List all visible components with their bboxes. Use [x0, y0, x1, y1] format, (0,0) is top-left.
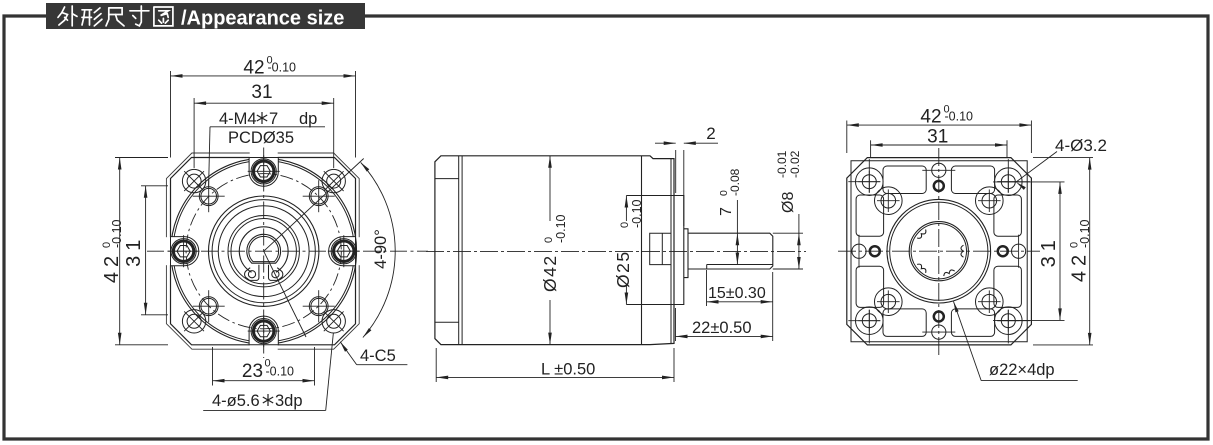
- svg-text:7: 7: [718, 207, 735, 216]
- svg-text:-0.02: -0.02: [788, 150, 802, 178]
- rear inner hole SW: [881, 294, 896, 309]
- dim 42 top rear: dimension line: [847, 124, 1032, 126]
- svg-text:42: 42: [1069, 250, 1091, 282]
- svg-text:31: 31: [1038, 235, 1060, 267]
- dim d8: extension lines: [773, 232, 803, 234]
- dim 22: extension lines: [675, 308, 677, 341]
- svg-text:22±0.50: 22±0.50: [692, 319, 752, 337]
- rear outer hole d3.2 NW: [862, 175, 876, 189]
- rear big circle double: [887, 199, 991, 303]
- svg-text:-0.10: -0.10: [268, 61, 297, 75]
- svg-text:31: 31: [927, 127, 948, 148]
- rear mid-edge hole pair N: [932, 163, 946, 177]
- front pilot boss d25 double circle: [209, 196, 319, 306]
- svg-text:4-ø5.6: 4-ø5.6: [212, 392, 260, 410]
- svg-text:15±0.30: 15±0.30: [708, 285, 766, 302]
- gear tooth squiggle 65 deg: [944, 270, 955, 276]
- dim L: dimension line: [436, 376, 674, 378]
- front screw pockets (white fill covers big circle): [250, 152, 278, 159]
- M4 tapped hole SW: [199, 297, 218, 316]
- dim 31 top rear: extension lines: [870, 140, 872, 157]
- dim 7 shaft: line and arrows: [736, 200, 738, 265]
- svg-text:PCDØ35: PCDØ35: [228, 129, 294, 147]
- side view body outline: [435, 156, 674, 345]
- front outer circle d42 double: [171, 158, 357, 344]
- rear centerlines: [838, 250, 1040, 252]
- rear view square outline: [847, 158, 1032, 345]
- rear corner pocket NW: [856, 168, 884, 196]
- side view small disc on shaft: [684, 229, 688, 278]
- rear outer hole d3.2 SE: [1001, 314, 1015, 328]
- socket screw N: [251, 159, 276, 184]
- socket screw E: [331, 239, 356, 264]
- side view inner hub rectangle: [650, 233, 671, 264]
- rear corner pocket SE: [995, 307, 1023, 335]
- svg-text:-0.10: -0.10: [1078, 219, 1092, 248]
- rear slot bottom-left: [883, 309, 926, 337]
- dim 22: dimension line: [676, 335, 773, 337]
- header Chinese text 外形尺寸图 (drawn strokes): [58, 6, 173, 26]
- svg-text:42: 42: [920, 106, 941, 127]
- dim 31 top front: dimension line: [194, 102, 334, 104]
- svg-text:23: 23: [242, 361, 263, 382]
- rear inner hole SE: [982, 294, 997, 309]
- corner hole d5.6 SW: [182, 310, 205, 333]
- corner hole d5.6 NE: [322, 169, 345, 192]
- dim 2 top: extension lines: [675, 150, 677, 193]
- rear slot top-left: [883, 166, 926, 194]
- rear slot left-top: [856, 195, 884, 236]
- rear corner pocket edge connector lines: [868, 159, 870, 193]
- svg-text:4-Ø3.2: 4-Ø3.2: [1055, 136, 1107, 155]
- socket screw S: [251, 319, 276, 344]
- rear inner hole NW: [881, 193, 896, 208]
- svg-text:-0.01: -0.01: [775, 150, 789, 178]
- rear mid-edge hole pair S: [932, 325, 946, 339]
- side view shaft flat line: [707, 264, 773, 266]
- front circlip around shaft: [239, 227, 288, 273]
- M4 tapped hole NE: [309, 187, 328, 206]
- front centerline horizontal: [147, 250, 428, 252]
- corner hole d5.6 SE: [322, 310, 345, 333]
- rear outer hole d3.2 NE: [1001, 175, 1015, 189]
- front shaft circle d8 with flat (D-shape) double: [247, 234, 281, 263]
- rear corner pocket NE: [995, 168, 1023, 196]
- svg-text:7: 7: [269, 110, 278, 128]
- svg-text:-0.10: -0.10: [630, 199, 644, 228]
- rear slot top-right: [951, 166, 994, 194]
- dim d25 side: extension lines: [626, 195, 681, 197]
- dim 2 top: arrows outside: [655, 142, 676, 144]
- label 4-M4 leader shelf and leader to M4 hole: [210, 126, 325, 128]
- rear gear bore circle double: [909, 222, 968, 281]
- dim 23 bottom: extension lines: [212, 347, 214, 386]
- svg-text:-0.08: -0.08: [728, 168, 742, 196]
- svg-text:4-90°: 4-90°: [372, 229, 390, 269]
- circlip ears: [245, 265, 259, 281]
- dim d8: dimension line: [798, 214, 800, 269]
- side view centerline: [426, 250, 806, 252]
- rear slot bottom-right: [951, 309, 994, 337]
- svg-text:-0.10: -0.10: [110, 219, 124, 248]
- svg-text:/Appearance size: /Appearance size: [181, 8, 344, 30]
- gear tooth squiggle 135 deg: [917, 264, 926, 273]
- side view flange double right edge: [670, 159, 672, 344]
- M4 tapped hole SE: [309, 297, 328, 316]
- rear slot right-bottom: [994, 266, 1022, 307]
- svg-text:-0.10: -0.10: [554, 214, 568, 243]
- front PCD35 dash-dot circle: [186, 174, 341, 329]
- front view square flange outline: [171, 158, 356, 345]
- svg-text:4-C5: 4-C5: [360, 347, 396, 365]
- dim 42 right rear: extension lines: [1033, 157, 1093, 159]
- side view left cap band lines: [458, 156, 460, 345]
- dim L: extension lines: [435, 348, 437, 382]
- svg-text:2: 2: [706, 124, 715, 143]
- svg-text:Ø42: Ø42: [540, 254, 560, 292]
- gear tooth squiggle 225 deg: [917, 230, 926, 239]
- rear inner hole NE: [982, 193, 997, 208]
- corner hole d5.6 NW: [182, 169, 205, 192]
- M4 tapped hole NW: [199, 187, 218, 206]
- dim 31 right rear: dimension line: [1059, 182, 1061, 321]
- angle dim 4-90 arc with arrows: [361, 162, 395, 337]
- front view outer flange silhouette square: [166, 153, 359, 349]
- socket screw W: [171, 239, 196, 264]
- dim 31 top rear: dimension line: [871, 144, 1007, 146]
- front bearing circles: [228, 216, 299, 287]
- dim d25 side: dimension line: [625, 196, 627, 222]
- dim 23 bottom: dimension line: [213, 380, 315, 382]
- svg-text:L ±0.50: L ±0.50: [541, 361, 595, 379]
- front diagonal radial line to NE arc end: [264, 159, 364, 252]
- dim 31 left front: dimension line: [145, 186, 147, 315]
- gear tooth squiggle 0 deg: [961, 245, 964, 257]
- header bar: [46, 3, 365, 29]
- side view gearbox joint line: [641, 156, 643, 345]
- dim 15: extension line: [706, 270, 708, 306]
- svg-text:42: 42: [101, 251, 123, 283]
- dim 31 right rear: extension lines: [993, 181, 1065, 183]
- rear mid-edge hole pair W: [852, 244, 866, 258]
- rear outer hole d3.2 SW: [862, 314, 876, 328]
- dim 15: dimension line: [707, 301, 773, 303]
- svg-text:ø22×4dp: ø22×4dp: [989, 361, 1055, 379]
- rear slot right-top: [994, 195, 1022, 236]
- svg-text:Ø25: Ø25: [613, 250, 633, 288]
- dim 42 top front: dimension line: [171, 75, 356, 77]
- svg-text:4-M4: 4-M4: [219, 110, 257, 128]
- rear inner face rectangle: [851, 161, 1027, 342]
- side view shaft d8 outline: [688, 233, 773, 269]
- svg-text:dp: dp: [299, 110, 317, 128]
- dim 42 left front: dimension line: [119, 158, 121, 345]
- dim 31 left front: extension lines: [141, 185, 168, 187]
- dim 42 left front: extension lines: [115, 157, 168, 159]
- dim 42 top front: extension lines: [170, 71, 172, 158]
- circlip ear holes: [248, 271, 255, 278]
- svg-text:42: 42: [243, 57, 264, 78]
- rear slot left-bottom: [856, 266, 884, 307]
- svg-text:-0.10: -0.10: [945, 110, 974, 124]
- rear mid-edge hole pair E: [1012, 244, 1026, 258]
- dim 42 right rear: dimension line: [1089, 158, 1091, 345]
- front diagonal radial line to SE: [264, 251, 306, 337]
- rear corner pocket SW: [856, 307, 884, 335]
- side view pilot boss d25 2mm: [676, 196, 684, 305]
- svg-text:Ø8: Ø8: [780, 192, 797, 213]
- svg-text:31: 31: [123, 235, 145, 267]
- dim d42 side: dimension line and arrows: [549, 156, 551, 221]
- front centerline vertical: [263, 148, 265, 359]
- svg-text:-0.10: -0.10: [266, 365, 295, 379]
- svg-text:3dp: 3dp: [275, 392, 303, 410]
- front circle d20: [218, 206, 309, 297]
- dim 31 top front: extension lines: [193, 98, 195, 168]
- dim 42 top rear: extension lines: [846, 121, 848, 154]
- svg-text:31: 31: [251, 82, 272, 103]
